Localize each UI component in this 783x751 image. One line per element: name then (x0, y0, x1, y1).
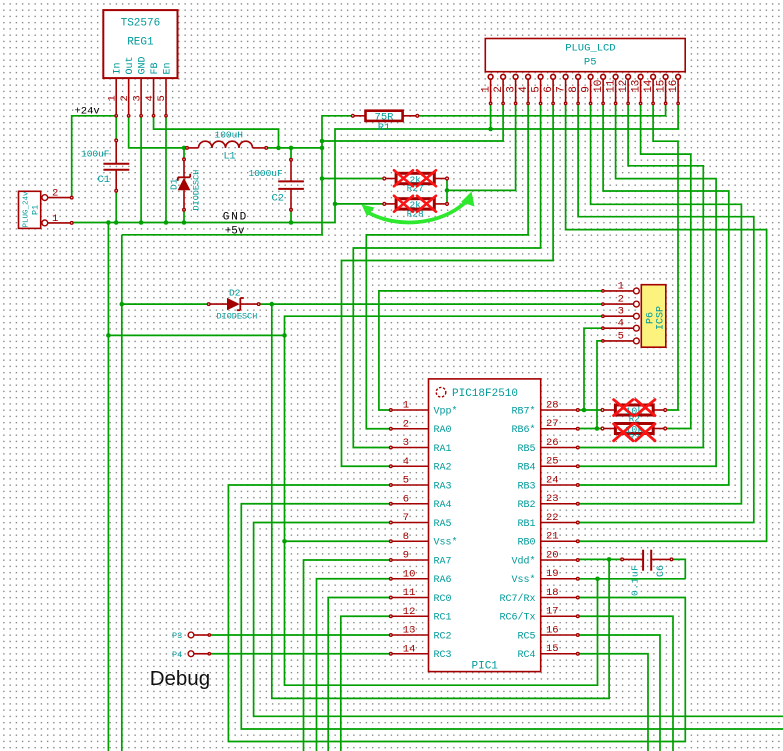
svg-text:RC5: RC5 (517, 631, 535, 642)
wire R27/R28 right link (446, 179, 448, 204)
svg-text:19: 19 (546, 568, 559, 580)
junction GND / R28 (333, 202, 338, 207)
svg-text:RB0: RB0 (517, 538, 535, 549)
svg-text:P5: P5 (584, 57, 597, 69)
wire REG1 GND pin3 down to GND rail (140, 116, 142, 223)
resistor R3 10k (crossed out) (601, 424, 667, 444)
wire D1 bottom to GND rail (183, 210, 185, 223)
junction +5v / D2 (120, 302, 125, 307)
svg-text:RA4: RA4 (434, 500, 452, 511)
svg-text:3: 3 (403, 437, 409, 449)
wire D1 top stub (183, 148, 185, 159)
junction D1 bottom (182, 220, 187, 225)
wire C2 top stub (290, 148, 292, 160)
voltage regulator U REG1 TS2576 (103, 10, 177, 117)
net label GND (223, 212, 248, 224)
svg-text:1000uF: 1000uF (249, 168, 284, 179)
junction C1 bottom (114, 220, 119, 225)
svg-text:21: 21 (546, 531, 559, 543)
connector P6 ICSP (602, 280, 667, 347)
svg-text:RC0: RC0 (434, 594, 452, 605)
svg-text:RC1: RC1 (434, 613, 452, 624)
svg-text:C1: C1 (98, 174, 111, 186)
svg-text:17: 17 (546, 606, 559, 618)
svg-text:2: 2 (52, 188, 58, 200)
svg-text:RB4: RB4 (517, 463, 535, 474)
resistor R1 75R (351, 111, 418, 134)
wire REG1 FB pin4 jog to L1 output (154, 116, 279, 148)
svg-text:3: 3 (506, 86, 518, 93)
junction GND line / P5 pin1 (488, 127, 493, 132)
svg-text:8: 8 (403, 531, 409, 543)
svg-text:RC4: RC4 (517, 650, 535, 661)
junction L1 out / +5v (320, 146, 325, 151)
junction Vdd vertical / pin20 row (607, 557, 612, 562)
svg-text:FB: FB (150, 62, 161, 74)
svg-text:R1: R1 (378, 122, 391, 134)
wire GND net ICSP pin3 around bottom to PIC Vss (285, 316, 603, 685)
wire P5 pin12 to PIC RB5 (578, 103, 704, 447)
svg-text:P3: P3 (172, 631, 182, 641)
svg-text:PLUG_24v: PLUG_24v (23, 191, 31, 228)
svg-text:3: 3 (618, 306, 624, 318)
junction FB sense (276, 146, 281, 151)
wire R1 right to P5 pin15 (417, 103, 665, 115)
wire +24v net from P1 pin2 up to REG1 In (72, 116, 117, 198)
wire PIC RA3 around bottom to PIC RC7/Rx (228, 485, 685, 742)
svg-text:13: 13 (631, 80, 643, 93)
svg-text:5: 5 (618, 330, 624, 342)
svg-text:20: 20 (546, 549, 559, 561)
junction ICSP4 / RB7 row (582, 408, 587, 413)
wire PIC Vss pin19 row (578, 578, 686, 580)
svg-text:TS2576: TS2576 (121, 18, 161, 30)
svg-text:7: 7 (403, 512, 409, 524)
svg-text:8: 8 (568, 86, 580, 93)
resistor R27 2k (crossed out) (383, 173, 449, 194)
green annotation arrow (362, 192, 475, 223)
wire P5 pin3 drop to R27/R28 right (447, 103, 516, 190)
svg-text:10: 10 (403, 568, 416, 580)
red X over R28 (394, 196, 436, 212)
svg-text:PIC18F2510: PIC18F2510 (452, 388, 518, 400)
wire ICSP pin4 to RB7 row (584, 328, 603, 410)
wire PIC RC4 down off bottom (578, 654, 648, 751)
wire GND branch row (108, 334, 284, 336)
svg-text:12: 12 (618, 80, 630, 93)
red X over R27 (394, 170, 436, 186)
junction D1 top (182, 146, 187, 151)
wire PIC Vss pin8 to GND vertical (285, 540, 391, 542)
svg-text:Vss*: Vss* (511, 574, 535, 586)
wire REG1 In to C1 top (115, 116, 117, 141)
wire +5v rail down left side (121, 235, 123, 751)
wire PIC RA5 to bottom row exiting right (254, 523, 783, 717)
svg-text:RB2: RB2 (517, 500, 535, 511)
svg-text:RC7/Rx: RC7/Rx (499, 593, 535, 605)
svg-text:15: 15 (546, 643, 559, 655)
red X over R3 (614, 424, 655, 441)
svg-text:27: 27 (546, 418, 559, 430)
wire C6 right wrap to Vss row (672, 559, 686, 578)
connector P1 PLUG_24v (19, 188, 73, 229)
svg-text:13: 13 (403, 625, 416, 637)
svg-text:RA1: RA1 (434, 444, 452, 455)
wire P4 to PIC RC3 (209, 653, 390, 655)
svg-text:100uH: 100uH (215, 130, 244, 141)
junction +5v / R27 (320, 176, 325, 181)
wire P5 pin4 to PIC RA0 (366, 103, 528, 428)
svg-text:PIC1: PIC1 (472, 661, 499, 673)
svg-text:RB5: RB5 (517, 444, 535, 455)
wire PIC pin27 row to R3 (578, 428, 603, 430)
wire +5v to D2 anode (122, 303, 209, 305)
wire PIC RC1 down off bottom (341, 616, 391, 751)
junction REG1 GND (139, 220, 144, 225)
svg-text:2: 2 (119, 95, 131, 101)
wire PIC pin28 row to R2 (578, 409, 603, 411)
svg-text:4: 4 (144, 95, 156, 101)
svg-text:In: In (113, 62, 124, 74)
svg-text:RB6*: RB6* (511, 424, 535, 436)
junction PIC Vss pin8 / GND vertical (282, 539, 287, 544)
svg-text:14: 14 (403, 643, 416, 655)
wire ICSP pin1 to PIC Vpp (379, 291, 603, 410)
junction GND branch / ICSP3 vertical (282, 333, 287, 338)
svg-text:4: 4 (403, 456, 409, 468)
svg-text:1: 1 (52, 213, 58, 225)
wire C2 bottom to GND rail (290, 210, 292, 223)
wire PIC RA6 down off bottom (317, 579, 391, 751)
wire R27 left to +5v (322, 178, 384, 180)
svg-text:6: 6 (403, 493, 409, 505)
wire P5 pin1 drop to GND line (490, 103, 492, 129)
svg-text:12: 12 (403, 606, 416, 618)
svg-text:1: 1 (481, 86, 493, 93)
svg-text:1: 1 (403, 400, 409, 412)
svg-text:P1: P1 (31, 205, 41, 215)
junction C2 bottom (289, 220, 294, 225)
svg-text:Vdd*: Vdd* (511, 555, 535, 567)
svg-text:+5v: +5v (225, 225, 245, 237)
wire GND rail to P5 pin16 (72, 103, 678, 222)
svg-text:5: 5 (403, 475, 409, 487)
wire PIC RC0 down off bottom (328, 598, 391, 751)
wire P3 to PIC RC2 (209, 634, 390, 636)
svg-text:DIODESCH: DIODESCH (192, 170, 202, 211)
junction R27 R28 right / P5 pin3 (445, 188, 450, 193)
wire P5 pin13 to R3 right (641, 103, 691, 428)
red X over R2 (614, 400, 655, 416)
svg-text:D1: D1 (169, 178, 180, 190)
wire P5 pin14 to R2 right (653, 103, 678, 410)
capacitor C2 1000uF (249, 159, 304, 212)
svg-text:22: 22 (546, 512, 559, 524)
svg-text:DIODESCH: DIODESCH (217, 312, 258, 322)
svg-text:RA6: RA6 (434, 575, 452, 586)
svg-text:4: 4 (518, 86, 530, 93)
svg-text:1: 1 (618, 280, 624, 292)
svg-text:RA7: RA7 (434, 556, 452, 567)
svg-text:RC6/Tx: RC6/Tx (499, 612, 535, 624)
svg-text:RA0: RA0 (434, 425, 452, 436)
junction REG1 En (164, 220, 169, 225)
svg-text:RB3: RB3 (517, 481, 535, 492)
capacitor C1 100uF (81, 139, 129, 192)
svg-text:1: 1 (106, 95, 118, 101)
svg-text:16: 16 (668, 80, 680, 93)
svg-text:En: En (162, 62, 173, 74)
svg-text:9: 9 (581, 86, 593, 93)
svg-text:Debug: Debug (150, 667, 210, 690)
svg-text:L1: L1 (224, 152, 236, 163)
svg-text:+24v: +24v (75, 106, 100, 118)
svg-text:GND: GND (223, 212, 248, 224)
connector P4 (172, 650, 211, 660)
svg-text:RA2: RA2 (434, 463, 452, 474)
svg-text:REG1: REG1 (127, 37, 154, 49)
wire PIC Vdd pin20 row to C6 (578, 558, 622, 560)
svg-text:RC3: RC3 (434, 650, 452, 661)
svg-text:0.1uF: 0.1uF (630, 564, 641, 596)
resistor R28 2k (crossed out) (383, 199, 449, 220)
wire P5 pin9 to PIC RB2 (578, 103, 742, 503)
svg-text:D2: D2 (229, 288, 241, 299)
microcontroller PIC1 PIC18F2510 (390, 379, 580, 673)
wire C1 bottom to GND rail (115, 191, 117, 223)
capacitor C6 0.1uF (621, 550, 673, 596)
junction ICSP5 / RB6 row (595, 426, 600, 431)
wire +5v rail up to R1 left (122, 116, 353, 235)
svg-text:3: 3 (131, 95, 143, 101)
junction GND vertical / branch (106, 333, 111, 338)
svg-text:4: 4 (618, 318, 624, 330)
wire REG1 En pin5 down to GND rail (165, 116, 167, 223)
net label +24v (75, 106, 100, 118)
diode D1 DIODESCH (169, 158, 202, 211)
svg-text:11: 11 (606, 79, 618, 93)
svg-text:C6: C6 (656, 565, 667, 577)
wire R28 left to GND (335, 203, 384, 205)
svg-text:26: 26 (546, 437, 559, 449)
svg-text:9: 9 (403, 550, 409, 562)
svg-text:24: 24 (546, 474, 559, 486)
wire P5 pin10 to PIC RB3 (578, 103, 729, 485)
svg-text:28: 28 (546, 399, 559, 411)
net label +5v (225, 225, 245, 237)
wire PIC RC5 down off bottom (578, 635, 660, 751)
svg-text:RC2: RC2 (434, 631, 452, 642)
svg-text:RB7*: RB7* (511, 405, 535, 417)
junction GND rail / left vertical (106, 220, 111, 225)
inductor L1 100uH (186, 130, 268, 163)
svg-text:RA3: RA3 (434, 481, 452, 492)
junction GND vertical / pin19 row (595, 577, 600, 582)
svg-text:7: 7 (556, 86, 568, 93)
svg-text:Out: Out (125, 56, 136, 74)
svg-text:2: 2 (493, 86, 505, 93)
wire PIC RA4 to bottom row exiting right (241, 504, 783, 729)
svg-text:2: 2 (618, 294, 624, 306)
wire PIC RA7 down off bottom (304, 560, 391, 751)
junction +5v / P5 pin2 (320, 139, 325, 144)
wire D2 cathode to ICSP pin2 (259, 303, 603, 305)
wire ICSP pin5 to RB6 row (597, 341, 603, 429)
wire L1 output to +5v vertical (266, 147, 322, 149)
resistor R2 10k (crossed out) (601, 405, 667, 425)
wire P5 pin11 to PIC RB4 (578, 103, 716, 466)
svg-text:18: 18 (546, 587, 559, 599)
svg-text:5: 5 (156, 95, 168, 101)
svg-text:PLUG_LCD: PLUG_LCD (565, 43, 615, 55)
annotation text Debug (150, 667, 210, 690)
svg-text:RB1: RB1 (517, 519, 535, 530)
wire P5 pin6 to PIC RA2 (342, 103, 554, 466)
svg-text:11: 11 (403, 587, 416, 599)
wire P5 pin2 drop to +5v (322, 103, 503, 141)
svg-text:15: 15 (656, 80, 668, 93)
wire PIC RC6/Tx down off bottom (578, 616, 673, 751)
svg-text:6: 6 (543, 86, 555, 93)
junction C2 top (289, 146, 294, 151)
connector P5 PLUG_LCD (481, 39, 686, 105)
svg-text:P4: P4 (172, 650, 182, 660)
svg-text:Vss*: Vss* (434, 537, 458, 549)
svg-text:RA5: RA5 (434, 519, 452, 530)
diode D2 DIODESCH (207, 288, 260, 322)
wire P5 pin7 to PIC RB0 (566, 103, 767, 541)
svg-text:ICSP: ICSP (656, 306, 667, 330)
svg-text:2: 2 (403, 418, 409, 430)
svg-text:25: 25 (546, 456, 559, 468)
svg-text:16: 16 (546, 624, 559, 636)
svg-text:23: 23 (546, 493, 559, 505)
svg-text:5: 5 (531, 86, 543, 93)
svg-text:Vpp*: Vpp* (434, 405, 458, 417)
svg-text:GND: GND (137, 56, 148, 74)
wire P5 pin8 to PIC RB1 (578, 103, 754, 522)
wire P5 pin5 to PIC RA1 (353, 103, 540, 447)
svg-text:14: 14 (643, 79, 655, 93)
wire GND left vertical (107, 223, 109, 751)
svg-text:C2: C2 (272, 193, 285, 205)
wire REG1 Out to L1 left (129, 116, 186, 148)
svg-text:10: 10 (593, 80, 605, 93)
junction Vdd vertical / D2 row (270, 302, 275, 307)
svg-text:100uF: 100uF (81, 149, 110, 160)
wire Vdd net D2 down around bottom to PIC Vdd (272, 304, 609, 698)
connector P3 (172, 631, 211, 641)
